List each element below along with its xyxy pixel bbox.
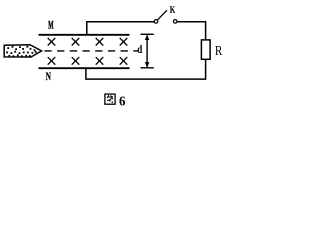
- svg-text:d: d: [137, 44, 142, 56]
- svg-text:R: R: [215, 43, 223, 58]
- switch terminal circle left: [154, 20, 158, 24]
- caption 图 (hand-drawn CJK glyph): [105, 94, 115, 104]
- dimension d: double arrow: [146, 36, 148, 67]
- plate N (bottom plate): [39, 67, 130, 69]
- svg-text:M: M: [48, 20, 53, 33]
- dimension d: bottom tick: [141, 67, 154, 69]
- wire: resistor down, bottom wire, up to plate N: [86, 59, 206, 79]
- wire: switch to top-right corner, down to resistor: [177, 22, 206, 40]
- svg-text:K: K: [170, 3, 176, 15]
- svg-text:N: N: [46, 70, 51, 83]
- plate M (top plate): [39, 34, 130, 36]
- magnetic field crosses row 1: [48, 38, 128, 46]
- magnetic field crosses row 2: [48, 57, 128, 65]
- resistor R box: [201, 40, 210, 59]
- switch blade: [158, 10, 167, 20]
- svg-text:6: 6: [119, 93, 126, 109]
- particle source (stippled nozzle): [4, 45, 41, 57]
- dashed beam axis: [44, 50, 137, 52]
- wire: top plate to switch: [87, 22, 154, 35]
- switch terminal circle right: [173, 20, 177, 24]
- dimension d: top tick: [141, 33, 154, 35]
